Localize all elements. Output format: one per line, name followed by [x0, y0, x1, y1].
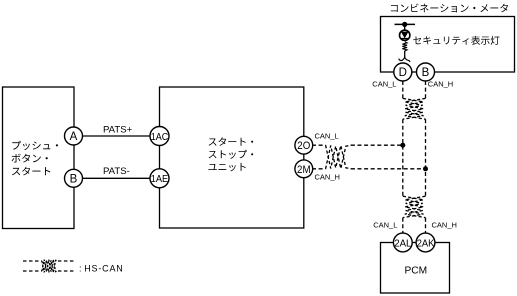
- pin 1AC: [150, 127, 169, 146]
- svg-text:CAN_H: CAN_H: [428, 80, 453, 89]
- svg-text:B: B: [70, 174, 78, 186]
- svg-text:CAN_H: CAN_H: [432, 221, 457, 230]
- node: CAN_L junction dot: [400, 143, 405, 148]
- label: セキュリティ表示灯 (security indicator): [413, 36, 499, 45]
- label: プッシュ・ (push): [12, 141, 58, 150]
- svg-text:2AL: 2AL: [394, 237, 411, 249]
- pin 2AL: [393, 233, 412, 252]
- wire squiggle to pin D: [399, 57, 410, 62]
- pin B: [65, 169, 83, 187]
- wire CAN_L dashed: pin D down: [402, 81, 404, 98]
- svg-text:CAN_L: CAN_L: [373, 221, 397, 230]
- wire CAN_H dashed: to pin 2AK: [425, 218, 427, 234]
- box: push button start unit: [3, 87, 75, 229]
- legend: twisted pair braid: [42, 260, 58, 273]
- wire CAN_L dashed: to pin 2AL: [402, 218, 404, 234]
- svg-text:PATS-: PATS-: [103, 166, 130, 177]
- twisted pair symbol upper (HS-CAN): [403, 98, 426, 119]
- label: ボタン・ (button): [12, 154, 48, 163]
- pin 1AE: [150, 169, 169, 188]
- svg-text:CAN_L: CAN_L: [372, 80, 396, 89]
- pin 2M: [295, 160, 313, 178]
- wire CAN_H dashed: pin B down: [425, 81, 427, 98]
- pin B (meter): [417, 63, 435, 81]
- svg-text:A: A: [70, 131, 78, 143]
- svg-text:HS-CAN: HS-CAN: [84, 263, 123, 273]
- label: コンビネーション・メータ (combination meter): [391, 4, 508, 13]
- label: スタート・ (start): [209, 137, 254, 146]
- wire CAN_H dashed: pin 2M to bus: [312, 168, 326, 170]
- svg-text:CAN_H: CAN_H: [315, 172, 340, 181]
- svg-text:PATS+: PATS+: [103, 124, 133, 135]
- box: PCM: [381, 243, 450, 294]
- box: combination meter: [381, 17, 515, 73]
- wire rail to LED: [404, 24, 406, 31]
- node: CAN_H junction dot: [423, 166, 428, 171]
- label: ストップ・ (stop): [209, 150, 254, 159]
- wire resistor down: [404, 51, 406, 57]
- pin 2AK: [416, 233, 435, 252]
- wire CAN_L dashed: pin 2O to bus: [312, 144, 326, 146]
- svg-text::: :: [79, 263, 82, 273]
- svg-text:B: B: [422, 67, 430, 79]
- box: start stop unit: [160, 87, 304, 228]
- pin A: [65, 127, 83, 145]
- svg-text:2AK: 2AK: [417, 237, 435, 249]
- svg-text:2O: 2O: [297, 140, 310, 152]
- pin D: [394, 63, 412, 81]
- wire CAN_H dashed: mid segment: [425, 119, 427, 196]
- svg-text:PCM: PCM: [404, 266, 427, 277]
- svg-text:1AC: 1AC: [151, 131, 169, 143]
- wire CAN_L dashed: mid segment: [402, 119, 404, 196]
- legend: twisted pair sample wires: [23, 261, 75, 271]
- svg-text:D: D: [399, 67, 407, 79]
- label: ユニット (unit): [208, 163, 245, 171]
- resistor of indicator (zigzag): [402, 42, 407, 51]
- security indicator LED (circle + triangle + bar): [400, 30, 410, 40]
- svg-text:2M: 2M: [297, 164, 311, 176]
- pin 2O: [295, 136, 313, 154]
- svg-text:CAN_L: CAN_L: [315, 132, 339, 141]
- wire PATS- : pin B to pin 1AE: [74, 177, 160, 179]
- svg-text:1AE: 1AE: [151, 173, 168, 185]
- power rail in meter: [395, 23, 416, 25]
- wire PATS+ : pin A to pin 1AC: [74, 135, 160, 137]
- label: スタート (start): [12, 167, 50, 176]
- twisted pair symbol horizontal (HS-CAN): [326, 145, 351, 169]
- junction dot on rail: [402, 22, 407, 27]
- twisted pair symbol lower (HS-CAN): [403, 196, 426, 218]
